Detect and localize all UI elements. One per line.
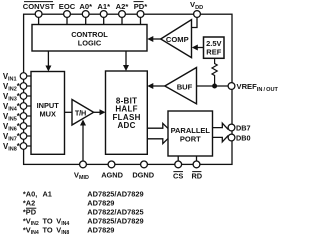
wire BUF to ADC — [147, 83, 165, 89]
wire VMID to T/H — [80, 120, 86, 162]
node A0* pin — [79, 2, 92, 25]
footnote line 2 — [23, 198, 115, 207]
node VMID pin — [74, 161, 89, 181]
wire ADC to parallel port bus 2 — [147, 138, 168, 143]
footnote line 5 — [23, 226, 115, 237]
node RD pin — [191, 161, 202, 180]
wire T/H to ADC — [94, 109, 106, 115]
node AGND pin — [101, 161, 123, 180]
node VIN3 pin — [3, 92, 31, 103]
svg-text:2.5V: 2.5V — [206, 39, 221, 48]
node VIN8 pin — [3, 142, 31, 153]
node VIN2 pin — [3, 82, 31, 93]
svg-text:A2*: A2* — [116, 2, 129, 11]
node junction VREF — [212, 84, 217, 89]
svg-text:DGND: DGND — [132, 171, 154, 180]
footnote line 1 — [23, 189, 144, 198]
node DGND pin — [132, 161, 154, 180]
svg-text:BUF: BUF — [177, 82, 193, 91]
footnote line 4 — [23, 216, 144, 227]
svg-text:AGND: AGND — [101, 171, 123, 180]
wire parallel port to RD — [196, 156, 198, 161]
svg-text:A1*: A1* — [97, 2, 110, 11]
control logic U1 — [32, 25, 147, 52]
node EOC pin — [59, 2, 76, 25]
svg-text:REF: REF — [206, 48, 221, 57]
voltage reference 2.5V REF — [204, 37, 225, 58]
svg-text:AD7822/AD7825: AD7822/AD7825 — [87, 207, 143, 216]
svg-text:AD7825/AD7829: AD7825/AD7829 — [87, 216, 143, 225]
buffer T/H — [72, 100, 94, 126]
node CONVST pin — [23, 2, 55, 25]
adc U3 8-bit half flash — [106, 71, 148, 154]
svg-text:CS: CS — [173, 171, 183, 180]
node VIN1 pin — [3, 72, 31, 83]
svg-text:*A0, A1: *A0, A1 — [23, 189, 52, 198]
node VIN4 pin — [3, 102, 31, 113]
node A1* pin — [97, 2, 110, 25]
svg-text:AD7825/AD7829: AD7825/AD7829 — [87, 189, 143, 198]
wire COMP to control logic — [147, 36, 160, 42]
wire outer frame — [24, 14, 232, 164]
op-amp BUF — [165, 68, 197, 104]
wire parallel port to DB7 — [213, 123, 229, 129]
svg-text:RD: RD — [191, 171, 202, 180]
svg-text:VMID: VMID — [74, 170, 89, 181]
wire control logic to input mux — [45, 51, 51, 72]
svg-text:COMP: COMP — [166, 35, 189, 44]
svg-text:T/H: T/H — [75, 108, 86, 117]
node DB0 pin — [228, 133, 251, 142]
svg-text:A0*: A0* — [79, 2, 92, 11]
footnote line 3 — [23, 207, 144, 216]
node VDD pin — [190, 0, 203, 17]
svg-text:ADC: ADC — [117, 121, 135, 130]
wire BUF to VREF pin — [197, 85, 229, 87]
svg-text:CONVST: CONVST — [23, 2, 55, 11]
svg-text:*PD: *PD — [23, 207, 37, 216]
svg-text:LOGIC: LOGIC — [78, 39, 102, 48]
node VREF_IN/OUT pin — [228, 82, 278, 93]
svg-text:PORT: PORT — [180, 135, 201, 144]
svg-text:AD7829: AD7829 — [87, 226, 114, 235]
svg-text:MUX: MUX — [39, 110, 55, 119]
op-amp COMP — [161, 20, 192, 58]
node VIN7 pin — [3, 132, 31, 143]
svg-text:PD*: PD* — [134, 2, 148, 11]
node PD* pin — [134, 2, 148, 25]
wire REF to COMP — [192, 45, 204, 51]
node A2* pin — [116, 2, 129, 25]
resistor R1 — [212, 58, 217, 86]
wire VDD to COMP — [192, 17, 198, 27]
wire input mux to T/H — [65, 111, 73, 113]
svg-text:VIN8*: VIN8* — [3, 142, 21, 153]
node CS pin — [173, 161, 183, 180]
wire ADC to parallel port bus 1 — [147, 123, 168, 128]
input mux U2 — [31, 72, 65, 155]
svg-text:VDD: VDD — [190, 0, 203, 11]
node VIN5 pin — [3, 112, 31, 123]
node VIN6 pin — [3, 122, 31, 133]
svg-text:EOC: EOC — [59, 2, 76, 11]
node DB7 pin — [228, 123, 251, 132]
wire parallel port to DB0 — [213, 135, 229, 141]
svg-text:VREFIN / OUT: VREFIN / OUT — [237, 82, 279, 93]
svg-text:AD7829: AD7829 — [87, 198, 114, 207]
parallel port U4 — [168, 111, 213, 156]
svg-text:DB7: DB7 — [236, 123, 251, 132]
svg-text:DB0: DB0 — [236, 133, 251, 142]
svg-text:*A2: *A2 — [23, 198, 35, 207]
wire control logic to adc — [123, 51, 129, 71]
wire parallel port to CS — [177, 156, 179, 161]
